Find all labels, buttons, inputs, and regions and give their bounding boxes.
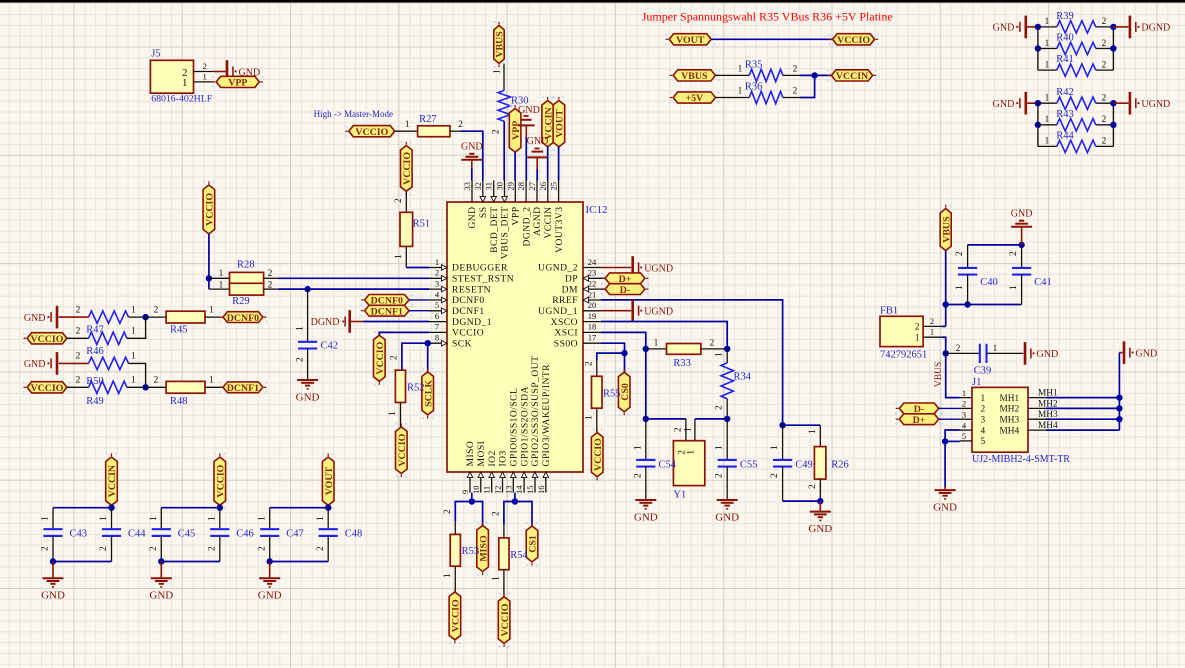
svg-text:D+: D+ bbox=[913, 415, 926, 426]
svg-text:XSCO: XSCO bbox=[551, 317, 578, 328]
port VOUT above C48 bbox=[322, 457, 334, 505]
svg-text:1: 1 bbox=[99, 516, 109, 521]
svg-text:2: 2 bbox=[492, 129, 502, 134]
junction R43 left bbox=[1035, 122, 1041, 128]
J1 pin 2 bbox=[960, 407, 972, 409]
R36 pin1 stub bbox=[715, 97, 749, 99]
svg-text:C46: C46 bbox=[236, 529, 254, 540]
wire R35 to VCCIN bbox=[800, 74, 831, 76]
svg-text:2: 2 bbox=[1009, 251, 1019, 256]
junction R43 right bbox=[1110, 122, 1116, 128]
svg-text:C55: C55 bbox=[740, 460, 758, 471]
power port GND at MH bbox=[1123, 341, 1126, 364]
svg-text:2: 2 bbox=[1102, 137, 1107, 147]
junction R26 bottom bbox=[817, 498, 823, 504]
svg-text:DGND_1: DGND_1 bbox=[452, 317, 492, 328]
IC12 pin 33 (GND) bbox=[471, 181, 473, 203]
svg-text:24: 24 bbox=[588, 257, 597, 267]
svg-text:GPIO0/SS1O/SCL: GPIO0/SS1O/SCL bbox=[509, 388, 520, 467]
junction R39 right bbox=[1110, 24, 1116, 30]
junction bottom rail C47 bbox=[267, 558, 273, 564]
J1 pin MH3 stub bbox=[1028, 418, 1046, 420]
svg-text:2: 2 bbox=[389, 355, 399, 360]
port VCCIO above R28 bbox=[203, 185, 215, 234]
svg-text:1: 1 bbox=[770, 445, 780, 450]
R48 pin1 stub bbox=[205, 386, 223, 388]
svg-text:16: 16 bbox=[536, 486, 546, 495]
resistor R34 bbox=[721, 363, 733, 399]
wire Y1 pin1 net bbox=[695, 418, 727, 420]
wire J5 pin2 to GND bbox=[214, 71, 226, 73]
svg-text:1: 1 bbox=[584, 415, 594, 420]
svg-text:VPP: VPP bbox=[511, 121, 522, 140]
port VPP above pin 29 bbox=[509, 109, 521, 153]
svg-text:VCCIO: VCCIO bbox=[451, 599, 462, 632]
junction R45 net bbox=[142, 314, 148, 320]
svg-text:1: 1 bbox=[131, 352, 136, 362]
wire GND to R42 net bbox=[1027, 102, 1038, 104]
svg-text:C54: C54 bbox=[659, 460, 677, 471]
svg-text:VCCIO: VCCIO bbox=[216, 464, 227, 497]
connector J1 body bbox=[972, 387, 1028, 452]
R36 pin2 stub bbox=[783, 97, 800, 99]
C39 pin1 lead bbox=[987, 352, 1024, 354]
svg-text:1: 1 bbox=[443, 573, 453, 578]
IC12 pin 6 (DGND_1) bbox=[429, 321, 447, 323]
svg-text:1: 1 bbox=[41, 516, 51, 521]
junction R42 right bbox=[1110, 100, 1116, 106]
svg-text:2: 2 bbox=[76, 376, 81, 386]
port VCCIO below R52 bbox=[396, 427, 408, 474]
C54 pin1 lead bbox=[645, 419, 647, 460]
wire RREF net bbox=[601, 300, 783, 425]
svg-text:D-: D- bbox=[620, 285, 630, 296]
IC12 pin 5 (DCNF1) bbox=[429, 310, 447, 312]
wire MH1 net bbox=[1046, 397, 1119, 399]
R28 pin1 stub bbox=[209, 277, 230, 279]
vertical net right of R39-R41 bbox=[1112, 27, 1114, 70]
R43 pin1 stub bbox=[1038, 124, 1057, 126]
svg-text:2: 2 bbox=[915, 323, 920, 333]
svg-text:MH1: MH1 bbox=[1000, 394, 1020, 404]
wire to UGND port bbox=[1113, 102, 1128, 104]
svg-text:GND: GND bbox=[634, 511, 658, 523]
resistor R51 bbox=[400, 212, 413, 246]
svg-text:DGND: DGND bbox=[1141, 23, 1170, 34]
svg-text:GND: GND bbox=[933, 501, 957, 513]
svg-text:1: 1 bbox=[715, 352, 725, 357]
capacitor C48 bbox=[319, 528, 338, 530]
port VCCIO above C46 bbox=[214, 457, 226, 505]
svg-text:SCK: SCK bbox=[452, 338, 472, 349]
svg-text:GND: GND bbox=[1136, 348, 1158, 359]
R34 pin2 lead bbox=[726, 399, 728, 419]
ground at C55 bbox=[717, 499, 738, 501]
capacitor C46 bbox=[210, 528, 229, 530]
port DCNF0 mid bbox=[365, 295, 409, 306]
wire J1 gnd drop bbox=[944, 441, 946, 487]
svg-text:J5: J5 bbox=[151, 49, 160, 60]
IC12 pin 4 (DCNF0) bbox=[429, 299, 447, 301]
junction R35/R36 bbox=[811, 72, 817, 78]
svg-text:VBUS: VBUS bbox=[934, 362, 944, 387]
svg-text:2: 2 bbox=[584, 361, 594, 366]
port +5V bbox=[673, 92, 715, 103]
svg-text:C48: C48 bbox=[345, 529, 363, 540]
IC12 pin 20 (UGND_1) bbox=[583, 310, 601, 312]
svg-text:SCLK: SCLK bbox=[423, 380, 434, 407]
svg-text:2: 2 bbox=[316, 546, 326, 551]
resistor R45 bbox=[166, 311, 205, 323]
svg-text:C40: C40 bbox=[980, 277, 998, 288]
svg-text:DCNF1: DCNF1 bbox=[452, 306, 485, 317]
wire MH trunk bbox=[1118, 353, 1120, 431]
wire VCCIN to pin 26 bbox=[547, 147, 549, 181]
IC12 pin 1 (DEBUGGER) bbox=[429, 267, 447, 269]
R40 pin1 stub bbox=[1038, 48, 1057, 50]
wire pin23 to D+ bbox=[601, 277, 605, 279]
wire top rail C47/C48 bbox=[270, 507, 329, 509]
svg-text:2: 2 bbox=[76, 305, 81, 315]
svg-text:R49: R49 bbox=[86, 396, 104, 407]
svg-text:1: 1 bbox=[219, 281, 224, 291]
port VCCIO at R49 bbox=[27, 382, 67, 393]
wire SS0O to R55 bbox=[597, 353, 625, 360]
svg-text:VCCIO: VCCIO bbox=[593, 438, 604, 471]
wire DGND to IC pin 6 bbox=[363, 321, 429, 323]
svg-text:R42: R42 bbox=[1056, 87, 1074, 98]
svg-text:R53: R53 bbox=[462, 546, 480, 557]
IC12 pin 7 (VCCIO) bbox=[429, 331, 447, 333]
power port GND at R47 bbox=[56, 306, 59, 329]
svg-text:1: 1 bbox=[808, 429, 818, 434]
svg-text:2: 2 bbox=[793, 64, 798, 74]
svg-text:28: 28 bbox=[516, 182, 526, 191]
ground at R26 bbox=[810, 511, 831, 513]
wire GND to pin 28 bbox=[525, 137, 527, 181]
svg-text:MISO: MISO bbox=[465, 441, 476, 467]
svg-text:2: 2 bbox=[715, 473, 725, 478]
junction top rail C46 bbox=[217, 505, 223, 511]
port VOUT bbox=[669, 34, 711, 45]
port VCCIO below R54 bbox=[498, 597, 510, 644]
ferrite bead FB1 bbox=[880, 316, 923, 346]
power port UGND at pin 24 bbox=[631, 256, 634, 279]
svg-text:R52: R52 bbox=[407, 383, 425, 394]
svg-text:C42: C42 bbox=[321, 341, 339, 352]
svg-text:30: 30 bbox=[495, 182, 505, 191]
svg-text:GND: GND bbox=[993, 99, 1015, 110]
R39 pin1 stub bbox=[1038, 26, 1057, 28]
connector J5 body bbox=[150, 60, 193, 93]
vertical net left of R42-R44 bbox=[1037, 103, 1039, 146]
capacitor C47 bbox=[260, 528, 279, 530]
IC12 pin 3 (RESETN) bbox=[429, 288, 447, 290]
junction CS1 net bbox=[512, 498, 518, 504]
svg-text:2: 2 bbox=[491, 511, 501, 516]
svg-text:1: 1 bbox=[715, 445, 725, 450]
junction XSCI at R33 bbox=[643, 346, 649, 352]
svg-text:2: 2 bbox=[1102, 94, 1107, 104]
svg-text:C41: C41 bbox=[1034, 277, 1052, 288]
svg-text:C45: C45 bbox=[178, 529, 196, 540]
ground at C45 bbox=[151, 577, 172, 579]
svg-text:31: 31 bbox=[484, 182, 494, 191]
svg-text:R36: R36 bbox=[745, 82, 763, 93]
svg-text:UJ2-MIBH2-4-SMT-TR: UJ2-MIBH2-4-SMT-TR bbox=[972, 454, 1070, 465]
junction R48 net bbox=[142, 384, 148, 390]
svg-text:VOUT: VOUT bbox=[676, 35, 705, 46]
IC12 pin 19 (XSCO) bbox=[583, 321, 601, 323]
svg-text:DM: DM bbox=[562, 284, 578, 295]
svg-text:1: 1 bbox=[295, 326, 305, 331]
wire pin20 to UGND bbox=[601, 310, 631, 312]
svg-text:VCCIO: VCCIO bbox=[355, 127, 388, 138]
svg-text:GPIO1/SS2O/SDA: GPIO1/SS2O/SDA bbox=[519, 386, 530, 466]
svg-text:12: 12 bbox=[493, 486, 503, 495]
svg-text:IO2: IO2 bbox=[487, 450, 498, 466]
svg-text:1: 1 bbox=[182, 77, 188, 89]
C39 pin2 lead bbox=[946, 352, 980, 354]
svg-text:2: 2 bbox=[268, 281, 273, 291]
port MISO bbox=[477, 526, 489, 572]
power port GND at R42 bbox=[1025, 92, 1028, 115]
resistor R43 bbox=[1057, 119, 1096, 131]
svg-text:R28: R28 bbox=[237, 260, 255, 271]
svg-text:R33: R33 bbox=[673, 358, 691, 369]
junction bottom rail C43 bbox=[50, 558, 56, 564]
port DCNF1 left bbox=[223, 382, 263, 393]
wire top rail C45/C46 bbox=[161, 507, 220, 509]
IC12 pin 12 (IO3) bbox=[502, 472, 504, 493]
wire VBUS down to FB1 bbox=[945, 251, 947, 327]
junction bottom rail C45 bbox=[158, 558, 164, 564]
svg-text:18: 18 bbox=[588, 322, 597, 332]
Y1 pin2 stub bbox=[685, 419, 687, 441]
svg-text:1: 1 bbox=[962, 388, 966, 398]
C45 pin2 lead bbox=[160, 536, 162, 562]
port VCCIO at R27 bbox=[349, 126, 395, 137]
junction top rail C44 bbox=[108, 505, 114, 511]
capacitor C42 bbox=[298, 341, 317, 343]
svg-text:+5V: +5V bbox=[685, 93, 704, 104]
svg-text:1: 1 bbox=[1009, 285, 1019, 290]
svg-text:1: 1 bbox=[149, 516, 159, 521]
power port UGND at pin 20 bbox=[631, 299, 634, 322]
C41 pin1 lead bbox=[1021, 275, 1023, 305]
svg-text:R54: R54 bbox=[510, 550, 528, 561]
IC12 pin 8 (SCK) bbox=[429, 342, 447, 344]
svg-text:2: 2 bbox=[257, 546, 267, 551]
wire C49 to R26 bottom bbox=[783, 500, 821, 502]
wire MH3 net bbox=[1046, 418, 1119, 420]
wire D+ to J1 pin3 bbox=[939, 418, 960, 420]
wire RREF to R26 bbox=[783, 424, 821, 426]
svg-text:GND: GND bbox=[149, 590, 173, 602]
resistor R29 bbox=[230, 283, 264, 295]
R41 pin2 stub bbox=[1096, 69, 1114, 71]
svg-text:2: 2 bbox=[1102, 17, 1107, 27]
J1 pin MH2 stub bbox=[1028, 407, 1046, 409]
svg-text:VCCIN: VCCIN bbox=[836, 71, 868, 82]
svg-text:VCCIO: VCCIO bbox=[31, 334, 64, 345]
IC12 pin 16 (GPIO3/WAKEUP/INTR) bbox=[545, 472, 547, 493]
svg-text:GND: GND bbox=[1011, 209, 1033, 220]
svg-text:R26: R26 bbox=[831, 460, 849, 471]
port CS0 bbox=[618, 372, 630, 412]
svg-text:C44: C44 bbox=[128, 529, 146, 540]
junction C39 net bbox=[943, 350, 949, 356]
capacitor C55 bbox=[718, 459, 737, 461]
svg-text:GND: GND bbox=[461, 142, 483, 153]
svg-text:1: 1 bbox=[955, 285, 965, 290]
wire DCNF0 to pin 4 bbox=[409, 299, 429, 301]
svg-text:VCCIO: VCCIO bbox=[31, 383, 64, 394]
IC12 pin 17 (SS0O) bbox=[583, 342, 601, 344]
svg-text:R29: R29 bbox=[232, 296, 250, 307]
svg-text:9: 9 bbox=[460, 490, 470, 494]
Y1 pin1 stub bbox=[694, 419, 696, 441]
resistor R49 bbox=[89, 381, 127, 393]
R49 pin2 stub bbox=[67, 386, 89, 388]
svg-text:1: 1 bbox=[394, 254, 404, 259]
wire pin22 to D- bbox=[601, 288, 605, 290]
port VCCIO at pin 7 bbox=[374, 335, 386, 381]
R40 pin2 stub bbox=[1096, 48, 1114, 50]
crystal Y1 bbox=[673, 441, 704, 486]
port VCCIO below R55 bbox=[591, 433, 603, 477]
svg-text:2: 2 bbox=[149, 546, 159, 551]
resistor R47 bbox=[89, 311, 129, 323]
svg-text:GND: GND bbox=[715, 511, 739, 523]
R53 pin1 stub bbox=[454, 566, 456, 592]
svg-text:VOUT3V3: VOUT3V3 bbox=[554, 207, 565, 253]
C46 pin2 lead bbox=[219, 536, 221, 562]
resistor R36 bbox=[749, 91, 783, 103]
svg-text:5: 5 bbox=[435, 300, 439, 310]
svg-text:DGND_2: DGND_2 bbox=[521, 207, 532, 247]
C47 pin1 lead bbox=[269, 508, 271, 530]
wire bottom rail C47/C48 bbox=[270, 561, 329, 563]
IC12 pin 21 (RREF) bbox=[583, 299, 601, 301]
wire GND to R39 net bbox=[1027, 26, 1038, 28]
R33 pin1 stub bbox=[646, 348, 667, 350]
svg-text:C47: C47 bbox=[286, 529, 304, 540]
svg-text:DEBUGGER: DEBUGGER bbox=[452, 263, 508, 274]
wire VCCIO to IC pin 7 bbox=[379, 332, 429, 335]
wire R51 to IC pin 1 bbox=[406, 267, 429, 269]
J1 pin MH4 stub bbox=[1028, 429, 1046, 431]
R44 pin2 stub bbox=[1096, 145, 1114, 147]
svg-text:VOUT: VOUT bbox=[555, 109, 566, 138]
R26 pin2 stub bbox=[819, 479, 821, 501]
R30 pin1 stub bbox=[503, 64, 505, 91]
svg-text:DGND: DGND bbox=[311, 317, 340, 328]
svg-text:1: 1 bbox=[405, 120, 410, 130]
C41 pin2 lead bbox=[1021, 245, 1023, 268]
svg-text:1: 1 bbox=[208, 516, 218, 521]
IC12 pin 28 (DGND_2) bbox=[525, 181, 527, 203]
wire top rail C43/C44 bbox=[53, 507, 112, 509]
C43 pin2 lead bbox=[52, 536, 54, 562]
svg-text:17: 17 bbox=[588, 333, 597, 343]
R27 pin1 stub bbox=[395, 130, 418, 132]
svg-text:GND: GND bbox=[258, 590, 282, 602]
svg-text:19: 19 bbox=[588, 311, 597, 321]
R55 pin2 stub bbox=[596, 360, 598, 376]
svg-text:2: 2 bbox=[76, 327, 81, 337]
power port GND at C39 bbox=[1024, 342, 1027, 365]
R43 pin2 stub bbox=[1096, 124, 1114, 126]
R42 pin1 stub bbox=[1038, 102, 1057, 104]
svg-text:J1: J1 bbox=[972, 377, 981, 388]
ground at C54 bbox=[635, 499, 656, 501]
svg-text:1: 1 bbox=[219, 269, 224, 279]
svg-text:3: 3 bbox=[981, 415, 986, 425]
svg-text:2: 2 bbox=[673, 427, 683, 432]
resistor R27 bbox=[418, 126, 450, 137]
svg-text:1: 1 bbox=[1045, 17, 1050, 27]
R29 pin1 stub bbox=[209, 288, 230, 290]
junction R40 right bbox=[1110, 45, 1116, 51]
resistor R53 bbox=[450, 534, 460, 566]
R53 pin2 stub bbox=[454, 521, 456, 534]
svg-text:IO3: IO3 bbox=[498, 450, 509, 466]
ground lead C47 bbox=[269, 562, 271, 579]
wire GND to pin 33 bbox=[471, 168, 473, 181]
wire MH2 net bbox=[1046, 407, 1119, 409]
wire cap bottom rail bbox=[946, 304, 1022, 306]
svg-text:2: 2 bbox=[1102, 60, 1107, 70]
svg-text:C43: C43 bbox=[70, 529, 88, 540]
svg-text:2: 2 bbox=[443, 509, 453, 514]
svg-text:11: 11 bbox=[482, 486, 492, 494]
svg-text:1: 1 bbox=[388, 411, 398, 416]
wire VPP to pin 29 bbox=[514, 152, 516, 180]
svg-text:R46: R46 bbox=[86, 346, 104, 357]
resistor R26 bbox=[814, 447, 826, 480]
R55 pin1 stub bbox=[596, 408, 598, 432]
svg-text:1: 1 bbox=[131, 376, 136, 386]
port VCCIN above pin 26 bbox=[542, 101, 554, 147]
J1 pin MH1 stub bbox=[1028, 397, 1046, 399]
R35 pin2 stub bbox=[783, 74, 800, 76]
svg-text:RESETN: RESETN bbox=[452, 284, 491, 295]
wire junction down to R29 bbox=[208, 278, 210, 289]
svg-text:GND: GND bbox=[467, 207, 478, 229]
R51 pin1 stub bbox=[405, 246, 407, 267]
svg-text:RREF: RREF bbox=[552, 295, 578, 306]
C43 pin1 lead bbox=[52, 508, 54, 530]
C45 pin1 lead bbox=[160, 508, 162, 530]
port VPP at J5 bbox=[216, 76, 259, 87]
port CS1 bbox=[526, 526, 538, 562]
wire pin24 to UGND bbox=[601, 267, 631, 269]
svg-text:1: 1 bbox=[1045, 39, 1050, 49]
port D- at J1 bbox=[899, 403, 938, 414]
resistor R39 bbox=[1057, 21, 1096, 33]
resistor R30 bbox=[498, 90, 510, 121]
junction at R28 pin1 bbox=[206, 275, 212, 281]
IC12 pin 10 (MOSI) bbox=[480, 472, 482, 493]
R54 pin2 stub bbox=[503, 525, 505, 538]
wire MH4 net bbox=[1046, 429, 1119, 431]
svg-text:25: 25 bbox=[549, 182, 559, 191]
R29 pin2 stub bbox=[264, 288, 279, 290]
svg-text:2: 2 bbox=[203, 61, 207, 71]
R35 pin1 stub bbox=[715, 74, 749, 76]
svg-text:2: 2 bbox=[208, 546, 218, 551]
